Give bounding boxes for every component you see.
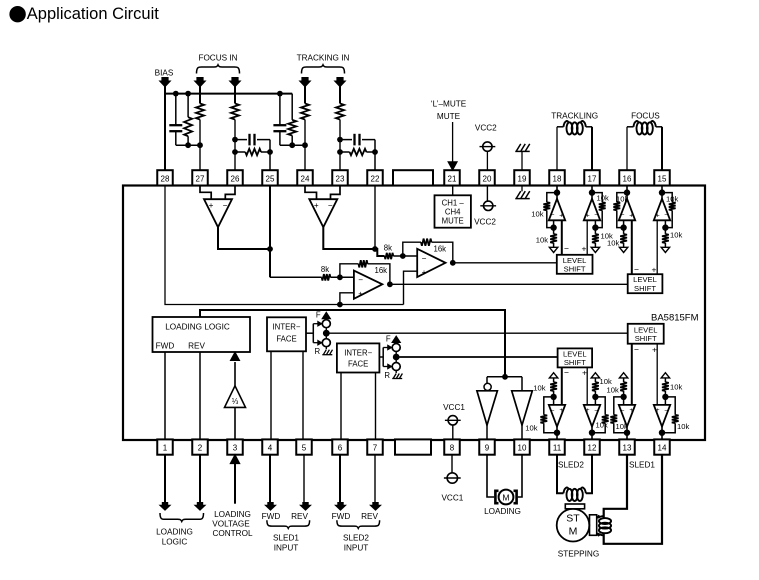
svg-text:25: 25 bbox=[266, 175, 275, 184]
buffer amp pin18 bbox=[543, 186, 565, 253]
wire pin13 to stepping bbox=[604, 454, 627, 518]
FOCUS IN label bbox=[198, 54, 237, 63]
wire focus inA upper bbox=[199, 87, 201, 104]
svg-text:‘L’–MUTE: ‘L’–MUTE bbox=[431, 100, 467, 109]
svg-text:CH4: CH4 bbox=[445, 208, 461, 217]
pin 18 box bbox=[549, 170, 565, 185]
inductor tracking coil bbox=[564, 121, 586, 134]
svg-text:10k: 10k bbox=[616, 195, 628, 204]
label 10k pin18 fb bbox=[531, 210, 543, 219]
svg-text:SHIFT: SHIFT bbox=[635, 334, 657, 343]
resistor bias net1 bbox=[184, 94, 192, 146]
wire A3 out to level shift 2 bbox=[390, 283, 628, 285]
resistor tracking fb bbox=[340, 149, 375, 155]
capacitor bias net1 bbox=[169, 94, 182, 146]
wire interface2 pin6 bbox=[340, 373, 342, 440]
wire A3 feedback bbox=[340, 264, 390, 285]
svg-text:CH1 –: CH1 – bbox=[442, 199, 465, 208]
svg-text:15: 15 bbox=[658, 175, 667, 184]
label 10k pin11 fb bbox=[525, 424, 537, 433]
driver buffer pin10 bbox=[512, 377, 533, 440]
pin 2 box bbox=[192, 439, 208, 454]
wire focus inB upper bbox=[234, 87, 236, 104]
op-amp A1 focus bbox=[204, 199, 232, 227]
wire loading rev pin2 bbox=[199, 352, 201, 440]
svg-text:LOADING LOGIC: LOADING LOGIC bbox=[165, 323, 230, 332]
buffer amp pin13 bbox=[610, 373, 635, 440]
wire pin2 down bbox=[199, 454, 201, 502]
svg-text:10k: 10k bbox=[670, 382, 682, 391]
svg-text:+: + bbox=[629, 407, 633, 414]
svg-text:−: − bbox=[594, 212, 598, 219]
driver inverter pin9 bbox=[477, 391, 498, 440]
wire driver feed bbox=[487, 376, 522, 378]
junction A1 out bbox=[267, 246, 273, 252]
wire gnd ext bbox=[521, 151, 523, 170]
svg-text:INPUT: INPUT bbox=[274, 544, 299, 553]
svg-text:FWD: FWD bbox=[332, 512, 351, 521]
label 10k pin13 up bbox=[607, 385, 619, 394]
wire tracking fb top2 bbox=[362, 140, 375, 171]
TRACKING IN label bbox=[297, 54, 350, 63]
brace TRACKING IN bbox=[302, 65, 345, 74]
svg-text:M: M bbox=[502, 493, 509, 503]
svg-text:SHIFT: SHIFT bbox=[564, 265, 586, 274]
label 10k pin15 fb bbox=[666, 195, 678, 204]
svg-text:⅓: ⅓ bbox=[232, 397, 239, 406]
wire tracking inA upper bbox=[304, 87, 306, 104]
wire pin12 amp plus leg bbox=[586, 367, 588, 405]
wire bias net1 bottom bbox=[176, 144, 200, 146]
svg-text:23: 23 bbox=[336, 175, 345, 184]
svg-text:LOADING: LOADING bbox=[214, 510, 251, 519]
junction net2 a bbox=[277, 91, 283, 97]
capacitor bias net2 bbox=[273, 94, 286, 146]
wire pin14 amp plus leg bbox=[656, 344, 658, 405]
svg-text:10k: 10k bbox=[607, 385, 619, 394]
resistor tracking series A bbox=[301, 104, 309, 120]
svg-text:7: 7 bbox=[373, 444, 378, 453]
wire tracking inB lower bbox=[339, 120, 341, 171]
wire pin3 down bbox=[230, 454, 240, 503]
label SLED2 pins bbox=[558, 460, 584, 469]
wire pin3 to amp bbox=[234, 407, 236, 439]
wire pin21 to mute box bbox=[452, 186, 454, 196]
svg-text:+: + bbox=[559, 407, 563, 414]
terminal BIAS bbox=[160, 77, 171, 87]
svg-text:R: R bbox=[314, 347, 320, 356]
label SLED2 in bbox=[343, 534, 369, 543]
wire pin24 to A2+ bbox=[305, 186, 317, 200]
wire interface2 pin7 bbox=[375, 373, 377, 440]
svg-text:10k: 10k bbox=[536, 236, 548, 245]
terminal loading fwd bbox=[160, 502, 170, 510]
svg-text:R: R bbox=[384, 371, 390, 380]
wire pin15 amp plus leg bbox=[656, 220, 658, 274]
junction focus fb b bbox=[232, 149, 238, 155]
wire pin25 line bbox=[269, 186, 271, 278]
label level shift2 plus bbox=[652, 264, 657, 274]
terminal sled1 rev bbox=[300, 502, 310, 510]
brace FOCUS IN bbox=[197, 65, 240, 74]
junction focus fb c bbox=[267, 149, 273, 155]
label 8k upper bbox=[384, 244, 392, 253]
svg-text:+: + bbox=[582, 243, 587, 253]
svg-text:TRACKING IN: TRACKING IN bbox=[297, 54, 350, 63]
wire pin6 down bbox=[339, 454, 341, 502]
wire focus inA lower bbox=[199, 120, 201, 171]
label FOCUS bbox=[631, 112, 660, 121]
svg-text:FACE: FACE bbox=[276, 334, 296, 343]
pin 27 box bbox=[192, 170, 208, 185]
label 10k pin12 fb bbox=[596, 421, 608, 430]
svg-text:10k: 10k bbox=[597, 194, 609, 203]
junction A3 out bbox=[387, 281, 393, 287]
pin 9 box bbox=[479, 439, 495, 454]
label LOADING LOGIC out2 bbox=[162, 538, 188, 547]
svg-text:CONTROL: CONTROL bbox=[212, 529, 252, 538]
svg-text:24: 24 bbox=[301, 175, 310, 184]
label FWD sled2 bbox=[332, 512, 351, 521]
svg-text:2: 2 bbox=[198, 444, 203, 453]
svg-text:10k: 10k bbox=[596, 421, 608, 430]
svg-text:10k: 10k bbox=[525, 424, 537, 433]
wire chain2 to level shift 4 bbox=[400, 356, 558, 358]
svg-text:5: 5 bbox=[302, 444, 307, 453]
pin 28 box bbox=[157, 170, 173, 185]
wire A3 plus input bbox=[340, 293, 354, 305]
svg-text:10k: 10k bbox=[616, 422, 628, 431]
junction net2 d bbox=[302, 142, 308, 148]
pin 6 box bbox=[332, 439, 348, 454]
label 16k upper bbox=[434, 245, 447, 254]
svg-text:LEVEL: LEVEL bbox=[633, 275, 657, 284]
pin 19 box bbox=[514, 170, 530, 185]
label 10k pin14 up bbox=[670, 382, 682, 391]
svg-text:SLED1: SLED1 bbox=[629, 460, 655, 469]
capacitor tracking fb bbox=[355, 134, 360, 146]
terminal sled2 fwd bbox=[335, 502, 345, 510]
power terminal VCC1 ext bbox=[444, 473, 461, 483]
svg-text:+: + bbox=[629, 212, 633, 219]
wire pin23 to A2- bbox=[331, 186, 341, 200]
label 10k pin12 up bbox=[600, 377, 612, 386]
junction net1 a bbox=[173, 91, 179, 97]
inductor focus coil bbox=[634, 121, 656, 134]
resistor 16k upper bbox=[421, 239, 432, 246]
svg-text:LOGIC: LOGIC bbox=[162, 538, 188, 547]
svg-text:13: 13 bbox=[623, 444, 632, 453]
svg-text:SLED2: SLED2 bbox=[558, 460, 584, 469]
label 8k lower bbox=[321, 265, 329, 274]
block LEVEL SHIFT 2 bbox=[628, 274, 663, 293]
wire A4 plus input bbox=[404, 271, 418, 304]
svg-text:8k: 8k bbox=[384, 244, 392, 253]
svg-text:27: 27 bbox=[196, 175, 205, 184]
svg-text:+: + bbox=[656, 407, 660, 414]
label level shift4 minus bbox=[564, 367, 569, 377]
wire track coil right bbox=[586, 127, 592, 170]
junction net2 c bbox=[289, 142, 295, 148]
svg-text:+: + bbox=[656, 212, 660, 219]
junction tracking fb b bbox=[337, 149, 343, 155]
wire pin17 amp plus leg bbox=[586, 220, 588, 255]
svg-text:17: 17 bbox=[588, 175, 597, 184]
label 10k pin17 fb bbox=[597, 194, 609, 203]
buffer amp pin14 bbox=[654, 373, 679, 440]
label 16k lower bbox=[375, 266, 388, 275]
wire pin11 amp minus leg bbox=[561, 367, 563, 405]
svg-text:10k: 10k bbox=[607, 239, 619, 248]
pin 16 box bbox=[619, 170, 635, 185]
svg-text:+: + bbox=[586, 407, 590, 414]
wire A2 output bbox=[323, 227, 375, 249]
wire vcc2 ext bbox=[486, 151, 488, 170]
label L-MUTE bbox=[431, 100, 467, 109]
block INTERFACE 2 bbox=[337, 343, 380, 372]
label STEPPING bbox=[558, 550, 599, 559]
label level shift1 plus bbox=[582, 243, 587, 253]
wire loading fwd pin1 bbox=[164, 352, 166, 440]
wire 8k to A3 minus bbox=[330, 276, 354, 278]
pin 14 box bbox=[654, 439, 670, 454]
svg-text:10k: 10k bbox=[533, 384, 545, 393]
svg-text:VOLTAGE: VOLTAGE bbox=[212, 520, 250, 529]
svg-text:ST: ST bbox=[566, 513, 580, 525]
motor LOADING bbox=[495, 490, 516, 505]
block INTERFACE 1 bbox=[267, 317, 306, 351]
brace sled2 bbox=[337, 520, 380, 528]
svg-text:−: − bbox=[551, 212, 555, 219]
svg-text:SLED1: SLED1 bbox=[273, 534, 299, 543]
svg-text:−: − bbox=[634, 344, 639, 354]
motor STEPPING bbox=[557, 504, 597, 542]
svg-text:+: + bbox=[652, 344, 657, 354]
terminal loading rev bbox=[195, 502, 205, 510]
label 10k pin13 fb bbox=[616, 422, 628, 431]
svg-text:−: − bbox=[564, 243, 569, 253]
label 10k pin18 low bbox=[536, 236, 548, 245]
svg-text:16k: 16k bbox=[375, 266, 388, 275]
pin 12 box bbox=[584, 439, 600, 454]
svg-text:+: + bbox=[422, 268, 427, 277]
svg-text:VCC2: VCC2 bbox=[475, 124, 497, 133]
pin 24 box bbox=[297, 170, 313, 185]
wire pin26 to A1- bbox=[225, 186, 235, 200]
capacitor focus fb bbox=[250, 134, 255, 146]
svg-text:28: 28 bbox=[161, 175, 170, 184]
wire focus coil left bbox=[627, 127, 634, 170]
wire pin22 line bbox=[374, 186, 376, 250]
terminal TRACKING IN A bbox=[300, 77, 311, 87]
resistor focus fb bbox=[235, 149, 270, 155]
inverter bubble pin9 bbox=[484, 377, 491, 391]
terminal FOCUS IN B bbox=[230, 77, 241, 87]
junction A2 out pin22 bbox=[372, 246, 378, 252]
pin 8 box bbox=[444, 439, 460, 454]
wire pin16 amp minus leg bbox=[631, 220, 633, 274]
svg-text:LEVEL: LEVEL bbox=[563, 349, 587, 358]
label REV sled2 bbox=[361, 512, 378, 521]
svg-text:TRACKLING: TRACKLING bbox=[551, 112, 598, 121]
svg-text:MUTE: MUTE bbox=[442, 217, 464, 226]
svg-text:INTER−: INTER− bbox=[344, 348, 372, 357]
label FWD sled1 bbox=[262, 512, 281, 521]
BIAS label bbox=[155, 69, 174, 78]
junction net1 d bbox=[197, 142, 203, 148]
svg-text:−: − bbox=[358, 276, 363, 285]
pin 17 box bbox=[584, 170, 600, 185]
pin 7 box bbox=[367, 439, 383, 454]
amp one-third bbox=[225, 386, 246, 408]
svg-text:REV: REV bbox=[291, 512, 308, 521]
label LOADING VOLTAGE CONTROL bbox=[212, 510, 253, 538]
label SLED1 bbox=[273, 534, 299, 543]
svg-text:14: 14 bbox=[658, 444, 667, 453]
svg-text:8: 8 bbox=[450, 444, 455, 453]
resistor focus series A bbox=[196, 104, 204, 120]
svg-text:M: M bbox=[569, 526, 578, 538]
svg-text:LEVEL: LEVEL bbox=[634, 325, 658, 334]
block LOADING LOGIC bbox=[153, 317, 251, 352]
label level shift4 plus bbox=[582, 367, 587, 377]
pin 10 box bbox=[514, 439, 530, 454]
junction net1 b bbox=[185, 91, 191, 97]
label VCC2 ext bbox=[475, 124, 497, 133]
buffer amp pin12 bbox=[584, 373, 609, 440]
brace loading logic bbox=[160, 513, 204, 522]
title bullet bbox=[9, 6, 25, 22]
pin 13 box bbox=[619, 439, 635, 454]
buffer amp pin11 bbox=[540, 373, 565, 440]
svg-text:VCC2: VCC2 bbox=[474, 217, 496, 226]
wire bias bus bbox=[165, 93, 292, 95]
wire pin25 to 8k lower bbox=[270, 276, 322, 278]
chassis ground ext pin19 bbox=[515, 144, 530, 152]
svg-text:REV: REV bbox=[361, 512, 378, 521]
wire pin4 down bbox=[269, 454, 271, 502]
wire pin27 to A1+ bbox=[200, 186, 211, 200]
svg-text:−: − bbox=[621, 212, 625, 219]
svg-text:FOCUS: FOCUS bbox=[631, 112, 660, 121]
svg-text:−: − bbox=[594, 407, 598, 414]
label BA5815FM bbox=[651, 312, 699, 323]
svg-text:+: + bbox=[559, 212, 563, 219]
junction net1 c bbox=[185, 142, 191, 148]
wire focus inB lower bbox=[234, 120, 236, 171]
wire track coil left bbox=[557, 127, 564, 170]
brace sled1 bbox=[267, 520, 310, 528]
svg-text:LOADING: LOADING bbox=[156, 528, 193, 537]
svg-text:−: − bbox=[551, 407, 555, 414]
current source chain interface2 bbox=[379, 335, 402, 381]
wire pin11 to coil bbox=[557, 454, 564, 493]
pin 11 box bbox=[549, 439, 565, 454]
wire tracking fb top bbox=[340, 139, 352, 141]
svg-text:12: 12 bbox=[588, 444, 597, 453]
wire pin7 down bbox=[374, 454, 376, 502]
wire pin1 down bbox=[164, 454, 166, 502]
svg-text:19: 19 bbox=[518, 175, 527, 184]
label INPUT sled1 bbox=[274, 544, 299, 553]
pin 5 box bbox=[296, 439, 312, 454]
svg-text:10k: 10k bbox=[677, 422, 689, 431]
svg-text:SHIFT: SHIFT bbox=[564, 358, 586, 367]
svg-text:+: + bbox=[582, 367, 587, 377]
svg-text:SLED2: SLED2 bbox=[343, 534, 369, 543]
title text Application Circuit bbox=[27, 5, 159, 23]
svg-text:FACE: FACE bbox=[348, 359, 368, 368]
label LOADING LOGIC out1 bbox=[156, 528, 193, 537]
pin 20 box bbox=[479, 170, 495, 185]
wire focus fb top2 bbox=[257, 140, 270, 171]
svg-text:FWD: FWD bbox=[156, 342, 175, 351]
junction A4 out bbox=[450, 260, 456, 266]
junction tracking fb c bbox=[372, 149, 378, 155]
svg-text:−: − bbox=[328, 201, 333, 210]
svg-text:22: 22 bbox=[371, 175, 380, 184]
label REV sled1 bbox=[291, 512, 308, 521]
label level shift2 minus bbox=[634, 264, 639, 274]
IC body BA5815FM outline bbox=[123, 186, 705, 441]
terminal FOCUS IN A bbox=[195, 77, 206, 87]
svg-text:3: 3 bbox=[233, 444, 238, 453]
svg-text:−: − bbox=[223, 201, 228, 210]
svg-text:+: + bbox=[209, 201, 214, 210]
svg-text:20: 20 bbox=[483, 175, 492, 184]
label 10k pin14 fb bbox=[677, 422, 689, 431]
junction A3 in bbox=[337, 274, 343, 280]
svg-text:21: 21 bbox=[448, 175, 457, 184]
power terminal VCC2 int bbox=[480, 201, 496, 210]
svg-text:INPUT: INPUT bbox=[344, 544, 369, 553]
label level shift3 plus bbox=[652, 344, 657, 354]
svg-text:6: 6 bbox=[338, 444, 343, 453]
resistor bias net2 bbox=[288, 94, 296, 146]
label VCC1 int bbox=[443, 403, 465, 412]
svg-text:LOADING: LOADING bbox=[484, 507, 521, 516]
wire A4 feedback bbox=[403, 242, 453, 263]
op-amp A2 tracking bbox=[309, 199, 337, 227]
label TRACKLING bbox=[551, 112, 598, 121]
svg-text:+: + bbox=[586, 212, 590, 219]
op-amp A4 bbox=[417, 249, 445, 277]
svg-text:FWD: FWD bbox=[262, 512, 281, 521]
buffer amp pin16 bbox=[613, 186, 635, 253]
resistor 16k lower bbox=[359, 260, 368, 267]
pin 26 box bbox=[227, 170, 243, 185]
label INPUT sled2 bbox=[344, 544, 369, 553]
wire mute arrow bbox=[448, 122, 457, 170]
wire focus coil right bbox=[656, 127, 662, 170]
svg-text:INTER−: INTER− bbox=[273, 322, 301, 331]
junction focus fb a bbox=[232, 137, 238, 143]
resistor 8k lower bbox=[322, 274, 331, 280]
inductor stepping coil bbox=[598, 515, 611, 536]
pin 3 box bbox=[227, 439, 243, 454]
wire pin20 to vcc2 bbox=[486, 186, 488, 202]
inductor sled2 coil bbox=[564, 488, 586, 501]
wire pin10 to motor bbox=[518, 454, 522, 497]
svg-text:4: 4 bbox=[268, 444, 273, 453]
svg-text:−: − bbox=[564, 367, 569, 377]
wire A2out step to 8k bbox=[375, 249, 385, 256]
resistor tracking series B bbox=[336, 104, 344, 120]
terminal sled2 rev bbox=[370, 502, 380, 510]
svg-text:VCC1: VCC1 bbox=[441, 494, 463, 503]
label VCC2 int bbox=[474, 217, 496, 226]
svg-text:VCC1: VCC1 bbox=[443, 403, 465, 412]
